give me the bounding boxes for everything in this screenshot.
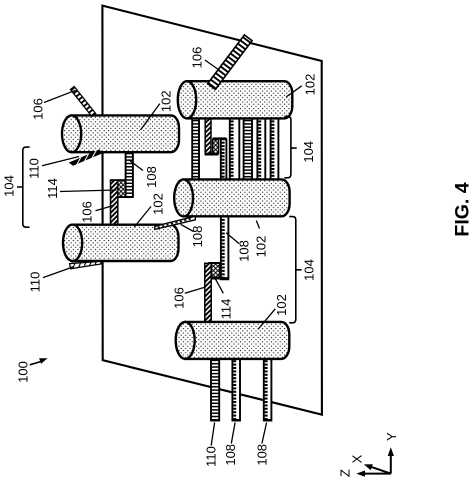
svg-text:104: 104 xyxy=(302,259,317,281)
arrow for label 100 xyxy=(30,358,48,365)
svg-text:X: X xyxy=(350,454,365,463)
bracket 104 (left) xyxy=(17,147,30,227)
svg-text:102: 102 xyxy=(158,90,173,112)
spacer 114 (bottom-middle) xyxy=(210,263,220,277)
leader 108 left step xyxy=(129,160,144,171)
bar 108 (left step, below 102A) xyxy=(126,151,133,197)
bar 108 (below 102E #1) xyxy=(232,358,240,421)
diagonal gate bar 106 (top, over 102B) xyxy=(208,35,252,89)
nanowire 102B (top right) xyxy=(178,81,292,118)
svg-text:106: 106 xyxy=(190,47,205,69)
nanowire 102E (bottom) xyxy=(176,322,290,359)
bar 108 (below 102C) xyxy=(221,217,229,280)
gate bar 106 (top-middle) xyxy=(205,118,211,154)
leader 102D xyxy=(134,207,151,228)
svg-text:114: 114 xyxy=(45,178,60,199)
spacer 114 (left step) xyxy=(118,180,126,197)
svg-text:108: 108 xyxy=(254,444,269,466)
leader 108 bottom-1 xyxy=(231,423,235,444)
leader 110 bottom xyxy=(211,423,214,446)
leader 108 bottom-2 xyxy=(262,423,267,444)
bar 108 (below 102E #2) xyxy=(264,358,272,421)
diagonal bar 108 (from 102D up to 102C) xyxy=(155,216,196,229)
nanowire 102A (top left) xyxy=(62,115,179,152)
svg-text:100: 100 xyxy=(16,361,31,383)
svg-text:102: 102 xyxy=(274,294,289,316)
svg-text:Y: Y xyxy=(384,432,399,441)
bracket 104 (right lower) xyxy=(289,217,301,323)
leader 106 bottom xyxy=(185,287,205,293)
leader 108 below 102C xyxy=(226,233,239,244)
svg-text:Z: Z xyxy=(338,469,353,477)
channel bar 108 group-right #4 xyxy=(271,118,279,180)
leader 102A xyxy=(141,104,160,130)
step bottom cap (bottom-middle) xyxy=(210,277,229,279)
thin sliver 110 (at 102D bottom-left) xyxy=(70,258,101,270)
thin sliver 110 (at 102A bottom-left) xyxy=(69,149,102,166)
svg-text:110: 110 xyxy=(28,272,43,293)
leader 102C xyxy=(256,221,259,229)
leader 110 lower xyxy=(43,267,74,278)
svg-text:108: 108 xyxy=(144,166,159,188)
svg-text:110: 110 xyxy=(27,158,42,179)
svg-text:110: 110 xyxy=(204,446,219,467)
svg-text:108: 108 xyxy=(237,240,252,262)
coordinate axes XYZ xyxy=(362,452,391,474)
channel bar 108 group-right #3 xyxy=(257,118,265,180)
svg-text:108: 108 xyxy=(190,226,205,248)
gate bar 106 (down to 102E) xyxy=(205,263,211,323)
svg-text:104: 104 xyxy=(2,175,17,197)
substrate plane 100 (parallelogram) xyxy=(102,6,322,415)
nanowire 102D (left middle) xyxy=(63,225,179,261)
bottom caps of bars below 102E xyxy=(211,419,220,421)
step bottom cap (top-middle) xyxy=(205,153,219,155)
svg-text:106: 106 xyxy=(172,287,187,309)
svg-text:102: 102 xyxy=(151,193,166,215)
spacer 114 (top-middle) xyxy=(213,139,219,153)
leader 114 left xyxy=(60,190,117,192)
step top cap (bottom-middle) xyxy=(209,262,220,264)
leader 106 top xyxy=(205,60,219,70)
leader 106 top-left xyxy=(44,90,76,102)
leader 114 bottom xyxy=(215,278,224,294)
bar 108 (top-middle step, down to 102C) xyxy=(221,139,227,180)
svg-text:106: 106 xyxy=(80,201,95,223)
leader 102B xyxy=(286,86,302,97)
nanowire 102C (middle) xyxy=(174,179,289,216)
bar 110 (below 102E) xyxy=(211,358,219,421)
channel bar 108 group-right #2 xyxy=(244,118,252,180)
channel bar 108 (leftmost, between 102B and 102C) xyxy=(192,118,199,180)
step bottom cap (left structure) xyxy=(117,195,133,198)
svg-text:104: 104 xyxy=(301,141,316,163)
leader 110 upper xyxy=(42,157,79,166)
bracket 104 (right upper) xyxy=(284,116,296,177)
svg-text:106: 106 xyxy=(31,98,46,120)
leader 106 left-mid xyxy=(96,206,113,211)
thin diagonal bar 106 (at 102A top-left) xyxy=(70,87,95,117)
gate bar 106 (left step, down to 102D) xyxy=(111,180,118,225)
step top cap (top-middle) xyxy=(213,137,227,139)
svg-text:102: 102 xyxy=(302,74,317,96)
svg-text:102: 102 xyxy=(254,236,269,258)
step top cap (left structure) xyxy=(110,179,126,181)
leader 108 diagonal bar xyxy=(181,224,194,231)
leader 102E xyxy=(258,309,275,330)
svg-text:114: 114 xyxy=(219,299,234,320)
svg-text:108: 108 xyxy=(223,444,238,466)
channel bar 108 group-right #1 xyxy=(230,118,240,180)
svg-text:FIG. 4: FIG. 4 xyxy=(451,182,473,236)
